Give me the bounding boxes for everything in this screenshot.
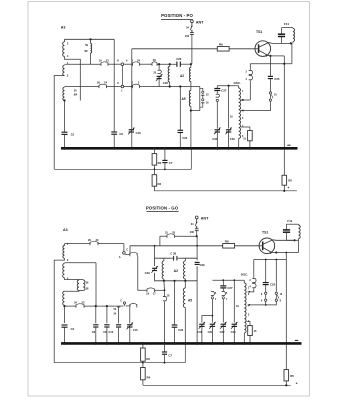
wire row2 lower — [65, 305, 77, 307]
wire jack to oscillator tap 4 — [241, 101, 270, 110]
wire coil B top link — [65, 262, 97, 264]
wire contact riser down to 19-17 line — [138, 256, 147, 290]
column to trimmer C40 — [233, 280, 235, 322]
emitter wire with arrow — [259, 50, 268, 55]
svg-text:R6: R6 — [219, 43, 223, 47]
svg-text:R6: R6 — [225, 239, 229, 243]
svg-text:OSC.: OSC. — [241, 272, 249, 276]
wire tank bottom drop lower — [287, 239, 299, 241]
resistor 15 ohm — [241, 127, 250, 131]
trimmer C20 between rows — [158, 63, 160, 65]
node antenna junction — [190, 63, 192, 65]
node L3 bottom — [63, 99, 65, 101]
bus junction dots lower — [63, 342, 66, 345]
svg-text:TS1: TS1 — [262, 230, 268, 234]
inductor in F11 lower — [298, 223, 300, 226]
wire row2 corner to A5 bottom — [191, 87, 200, 111]
svg-text:C20: C20 — [163, 81, 169, 85]
inductor A5 winding — [189, 90, 191, 106]
A2 right winding lower — [184, 258, 186, 261]
wire L1 bottom to left frame lower — [54, 258, 64, 362]
resistor R2 — [153, 148, 155, 153]
svg-text:C32: C32 — [212, 137, 217, 141]
capacitor C7 — [164, 148, 166, 160]
svg-text:C16: C16 — [136, 131, 142, 135]
wire right column vertical — [283, 56, 285, 175]
resistor R4 — [153, 169, 155, 174]
wire emitter to right column — [270, 55, 284, 57]
switch contact row1 second — [132, 63, 134, 66]
svg-text:BF: BF — [85, 49, 89, 53]
wire left coil top rail lower — [65, 243, 91, 245]
wire ANT lead — [191, 23, 193, 26]
svg-text:A2: A2 — [180, 74, 184, 78]
wire feedback rail lower — [254, 259, 286, 261]
trimmer C40 — [232, 323, 237, 325]
wire positive rail lower — [143, 384, 291, 386]
capacitor C25 lower — [275, 260, 277, 292]
antenna terminal ANT lower — [195, 216, 198, 219]
svg-text:A5: A5 — [188, 299, 192, 303]
trimmer C29 on A2 left — [152, 267, 157, 269]
trimmer C32 — [215, 129, 220, 131]
bus junction dots — [63, 147, 66, 150]
terminal C — [121, 85, 124, 88]
switch contact 26-24 — [98, 85, 100, 88]
wire A2 risers lower — [154, 246, 156, 258]
svg-text:C10: C10 — [108, 330, 113, 334]
wire contact row 19-17 — [154, 289, 164, 291]
resistor R4 lower — [142, 363, 144, 368]
resistor R5 emitter-supply — [282, 175, 287, 185]
inductor A5 lower — [184, 281, 186, 288]
transformer box A2 lower — [155, 258, 198, 281]
capacitor C10 column — [118, 307, 120, 323]
ground bus lower schematic — [61, 342, 302, 345]
svg-text:100: 100 — [190, 230, 195, 234]
resistor R6 lower — [223, 244, 235, 249]
oscillator transformer winding — [238, 86, 240, 88]
svg-text:A3: A3 — [61, 26, 66, 30]
switch contact 31 on antenna lower — [195, 222, 197, 226]
node ANT junction lower — [196, 235, 198, 237]
A2 left winding lower — [163, 258, 165, 261]
capacitor C6 column lower — [106, 305, 108, 307]
svg-text:C22: C22 — [220, 330, 225, 334]
svg-text:C7: C7 — [169, 161, 173, 165]
capacitor C38 on A2 top — [173, 256, 175, 261]
svg-text:100: 100 — [185, 34, 190, 38]
wire positive rail — [154, 190, 297, 192]
wire A2 right edge to bus — [196, 281, 198, 344]
svg-text:C30: C30 — [230, 137, 235, 141]
svg-text:A5: A5 — [181, 97, 185, 101]
node choke top — [89, 38, 91, 40]
svg-text:C8: C8 — [92, 330, 96, 334]
svg-text:C29: C29 — [145, 271, 151, 275]
svg-text:R5: R5 — [290, 374, 294, 378]
svg-text:C7: C7 — [168, 353, 172, 357]
minus mark lower — [295, 339, 299, 341]
capacitor in F11 lower — [286, 224, 288, 229]
wire oscillator top link — [217, 85, 238, 87]
node L3 bottom lower — [64, 304, 66, 307]
capacitor C27 — [214, 88, 220, 90]
transformer A2 left winding — [169, 63, 171, 65]
svg-text:C: C — [126, 249, 128, 252]
svg-text:A: A — [119, 256, 121, 259]
node dots A2 bottom — [163, 280, 165, 282]
svg-text:C39: C39 — [200, 263, 205, 267]
capacitor C26 — [176, 62, 178, 67]
resistor R5 lower — [284, 370, 289, 381]
svg-text:+: + — [287, 186, 289, 190]
svg-text:+: + — [296, 381, 298, 385]
switch contacts 2-4 lower — [253, 260, 255, 278]
jack contacts lower left — [265, 285, 267, 292]
wire return line riser to bus — [190, 148, 192, 169]
capacitor C8 column — [95, 263, 97, 306]
capacitor C7 lower — [164, 343, 166, 351]
switch contact 19-17 — [146, 289, 148, 292]
collector wire lower — [263, 240, 295, 245]
capacitor C39 on A2 right — [195, 261, 200, 263]
svg-text:A2: A2 — [174, 269, 178, 273]
collector wire to tank — [259, 43, 291, 48]
svg-text:A3: A3 — [63, 228, 68, 232]
node collector tank lower — [294, 239, 296, 241]
resistor R6 — [217, 47, 229, 52]
svg-text:9I4: 9I4 — [74, 93, 78, 96]
svg-text:F11: F11 — [287, 219, 292, 223]
svg-text:C 38: C 38 — [170, 252, 176, 256]
svg-text:C27: C27 — [221, 88, 227, 92]
svg-text:C25: C25 — [274, 77, 280, 81]
wire base rail — [132, 48, 218, 50]
jack contacts 10 — [269, 92, 271, 94]
wire corner to rail lower — [159, 236, 161, 246]
wire rail drop to contact — [129, 246, 131, 253]
contacts 5-1 column lower — [211, 291, 214, 293]
choke pair 36-28 — [65, 278, 80, 280]
capacitor C33 lower column — [174, 281, 176, 325]
svg-text:C6: C6 — [119, 132, 123, 136]
choke 59 BF — [90, 39, 92, 43]
switch contacts 4-4 — [249, 64, 251, 70]
wire return line riser to bus lower — [184, 343, 186, 362]
wire pole link K-C — [121, 66, 123, 86]
wire emitter column to supply lower — [285, 253, 287, 370]
switch contact 34 on antenna lead — [190, 26, 192, 30]
inductor L3 lower — [63, 291, 65, 305]
svg-text:C16: C16 — [133, 328, 138, 332]
capacitor C27 lower — [220, 285, 226, 287]
inductor L1 primary winding — [64, 39, 66, 42]
wire lower return line — [54, 168, 191, 170]
svg-text:C26: C26 — [176, 57, 182, 61]
wire riser row1 to base rail — [131, 49, 133, 64]
inductor L3 — [63, 87, 65, 100]
svg-text:R5: R5 — [288, 178, 292, 182]
svg-text:R2: R2 — [158, 161, 162, 165]
contacts on C27 column lower — [222, 291, 225, 293]
trimmer C30 column — [228, 86, 230, 129]
wire ANT lead lower — [196, 219, 198, 222]
wire antenna top link lower — [160, 235, 167, 237]
antenna terminal ANT — [191, 20, 194, 23]
column A2-left to bus with contact 18 — [163, 281, 166, 291]
capacitor C2 — [64, 101, 66, 132]
inductor L2 — [63, 65, 65, 75]
wire coil L1 bottom to band switch — [65, 57, 81, 101]
wire base rail lower — [130, 245, 223, 247]
wire lower return line lower schematic — [54, 362, 185, 364]
capacitor C2 lower — [64, 306, 66, 323]
wire oscillator feedback rail — [250, 63, 292, 65]
resistor 15 ohm lower — [247, 321, 251, 325]
svg-text:ANT: ANT — [201, 217, 209, 221]
svg-text:C33: C33 — [178, 328, 183, 332]
wire jacks join to oscillator tap lower — [266, 301, 277, 305]
wire tank bottom drop — [291, 43, 293, 63]
svg-text:C: C — [117, 82, 119, 85]
ground bus top schematic — [61, 147, 298, 150]
switch contact 28 — [151, 63, 153, 66]
node collector-tank — [290, 42, 292, 44]
emitter wire lower — [263, 247, 272, 252]
contact and terminal on C27 column — [216, 93, 219, 95]
node emitter lower — [275, 251, 277, 253]
trimmer C32 lower — [210, 323, 215, 325]
svg-text:C40: C40 — [231, 330, 236, 334]
svg-text:R2: R2 — [146, 357, 150, 361]
svg-text:F11: F11 — [284, 22, 289, 26]
svg-text:C2: C2 — [71, 133, 75, 137]
wire antenna vertical to node — [191, 34, 193, 63]
wire top-left rail — [65, 38, 115, 40]
variable capacitor C16 column — [131, 64, 133, 129]
capacitor C25 — [269, 56, 271, 76]
svg-text:C6: C6 — [103, 330, 107, 334]
svg-text:C2: C2 — [71, 327, 75, 331]
svg-text:C27: C27 — [227, 286, 233, 290]
switch contact row2 output — [129, 304, 131, 307]
switch contact 31-35 — [166, 235, 168, 238]
svg-text:R4: R4 — [158, 182, 162, 186]
switch contact 3-5 — [132, 85, 134, 88]
switch contact after terminal lower — [125, 253, 130, 255]
transformer A2 right winding — [190, 64, 192, 67]
wire oscillator top link lower — [212, 279, 244, 281]
svg-text:TS1: TS1 — [256, 30, 262, 34]
wire cap C25 top stub — [265, 260, 267, 283]
inductor L2 lower — [63, 264, 65, 278]
trimmer C22 — [221, 323, 226, 325]
jack contacts lower right — [275, 292, 277, 294]
trimmer C16 lower column — [129, 306, 131, 324]
node emitter — [269, 55, 271, 57]
capacitor in F11 — [281, 28, 283, 34]
switch contact 34-33 — [75, 305, 77, 308]
terminal C lower row2 — [123, 302, 125, 304]
switch contact 19-23 — [100, 63, 102, 66]
oscillator transformer winding lower — [243, 280, 245, 283]
terminal C lower row1 — [123, 244, 125, 252]
capacitor C33 column — [179, 85, 181, 87]
svg-text:POSITION - PO: POSITION - PO — [161, 13, 193, 18]
svg-text:K: K — [117, 60, 119, 63]
svg-text:ANT: ANT — [196, 20, 204, 24]
resistor R2 lower — [142, 343, 144, 348]
capacitor C6 column — [113, 39, 115, 131]
wire L2 bottom to left frame — [54, 76, 64, 170]
terminal K — [121, 63, 124, 66]
switch contact 29-30 — [89, 242, 91, 245]
svg-text:POSITION - GO: POSITION - GO — [146, 205, 179, 210]
svg-text:C33: C33 — [182, 136, 187, 140]
svg-text:R4: R4 — [147, 375, 151, 379]
coupling element 100 on antenna lead — [190, 32, 194, 34]
branch to trimmer C41 — [202, 316, 213, 323]
trimmer pair 10-16 column — [200, 88, 203, 91]
minus supply mark — [287, 144, 290, 146]
inductor L1 lower — [64, 244, 66, 246]
wire row1 band-switch line — [65, 63, 102, 65]
svg-text:OSC.: OSC. — [234, 81, 242, 85]
wire row2 band-switch line — [65, 86, 100, 88]
svg-text:C25: C25 — [270, 282, 276, 286]
inductor in F11 — [292, 27, 294, 30]
coupling element 100 lower — [195, 228, 199, 230]
wire emitter rail lower — [276, 252, 298, 254]
